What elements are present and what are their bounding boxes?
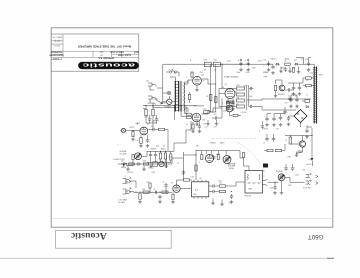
volume pot VR1 (135, 153, 142, 160)
svg-text:47K: 47K (303, 170, 306, 172)
wire reverb out (290, 181, 304, 183)
ch2 drop cap Ca (212, 155, 215, 160)
wire T1 primary top (170, 77, 175, 81)
svg-text:Acoustic: Acoustic (70, 230, 107, 241)
interstage hwire (180, 157, 184, 159)
ch2 out wire (180, 188, 191, 190)
wire tank to pot (268, 181, 279, 183)
tube V4 output 6L6 (193, 76, 202, 85)
pilot lamp DS1 (167, 91, 171, 95)
svg-text:SLO-BLO: SLO-BLO (152, 99, 159, 101)
V5 cathode resistor (192, 124, 194, 129)
svg-text:+20V: +20V (305, 126, 309, 128)
bias grounds row (279, 70, 283, 73)
svg-text:DIN: DIN (262, 171, 265, 173)
svg-text:47K: 47K (220, 183, 223, 185)
wire rail to filters (220, 63, 269, 65)
transformer T1 secondary (183, 83, 186, 111)
cathode ground V4 (196, 85, 198, 88)
grid feed wire between tubes (184, 82, 186, 114)
bridge cap C61 (287, 116, 290, 121)
grid resistor V5 (188, 94, 190, 100)
footswitch arrows (316, 175, 319, 185)
mixer cap C31 (122, 162, 127, 165)
filter cap C53 (267, 61, 270, 66)
svg-text:100K: 100K (243, 85, 247, 87)
svg-text:G60T-01: G60T-01 (54, 44, 60, 46)
AC plug prong lower (148, 96, 157, 105)
svg-text:1.5K: 1.5K (136, 140, 139, 142)
svg-text:+16.3V: +16.3V (306, 164, 313, 166)
reverb pot VR8 (278, 174, 285, 181)
ground stub V2 area two (215, 122, 219, 125)
border frame of schematic sheet (51, 28, 333, 227)
OT component small box (305, 100, 310, 103)
svg-text:acoustic: acoustic (81, 61, 135, 67)
tone stack bottom bus (147, 162, 171, 164)
input jack J1 (121, 128, 125, 132)
grid network box lower (187, 116, 192, 118)
tone branch extra (170, 154, 172, 160)
ch2 drop resistor Ra (201, 155, 203, 160)
svg-text:6.3V: 6.3V (285, 103, 288, 105)
ch2 drop resistor Rb (217, 155, 219, 160)
interstage vertical wire A (183, 152, 185, 180)
svg-text:TREBLE: TREBLE (150, 149, 156, 151)
OT tap resistor R46 (306, 84, 312, 86)
tone cap C14 (154, 153, 157, 158)
rail drop wire (173, 106, 175, 121)
svg-text:NORMAL: NORMAL (120, 150, 127, 153)
wire ladder bus second (248, 85, 250, 107)
transistor Q1 bias regulator (279, 85, 285, 91)
svg-text:.02: .02 (288, 96, 290, 98)
resistor R56 at Q1 (274, 85, 276, 91)
wire fuse leads (166, 71, 169, 73)
diode D1 (275, 63, 279, 65)
rail junction wire (194, 105, 204, 107)
mid right filter caps C64 C65 (265, 117, 268, 122)
V6 cathode (172, 195, 174, 200)
ground Q2 (295, 154, 299, 157)
screen resistor R41 (210, 64, 212, 112)
V6 plate wire (177, 180, 184, 185)
wire ladder bus (246, 85, 248, 110)
reverb cap C81 (211, 184, 216, 187)
svg-text:68K: 68K (143, 189, 146, 191)
wire T1 secondary taps (185, 80, 189, 84)
svg-text:500K: 500K (169, 157, 173, 159)
wire B+ rail (197, 63, 241, 65)
top right small caps row (288, 97, 291, 102)
tone resistor R17 (164, 153, 166, 159)
svg-text:6L6: 6L6 (204, 124, 207, 126)
wire screens top (208, 83, 216, 85)
cap C56 at Q1 (287, 88, 292, 91)
svg-text:APPROVED R.M.: APPROVED R.M. (98, 57, 114, 60)
svg-text:220K: 220K (249, 96, 253, 98)
supply dropper R11 (145, 109, 147, 116)
svg-text:D51: D51 (264, 60, 267, 62)
svg-text:V1: V1 (147, 124, 149, 126)
mixer cap C32 (136, 162, 141, 165)
wire preamp rail top (143, 105, 197, 107)
wire V4 plate (201, 79, 208, 84)
low voltage rail wire (285, 134, 312, 136)
mixer gain box (153, 162, 158, 166)
svg-text:SCALE NONE: SCALE NONE (117, 54, 131, 57)
svg-text:.1: .1 (163, 182, 164, 184)
wire V3B leads (230, 112, 233, 116)
svg-text:.0022: .0022 (295, 175, 299, 177)
shunt cap C72 (158, 195, 161, 200)
DC rail down arrow (311, 128, 313, 158)
wire ladder to OT (247, 99, 255, 101)
plate resistor ladder R32 (237, 93, 245, 96)
cap C83 (273, 185, 276, 190)
resistor R72 (162, 191, 168, 193)
plate resistor ladder R31 (237, 87, 245, 90)
svg-text:1000uF: 1000uF (263, 129, 268, 131)
switch arrow mark (156, 100, 163, 105)
svg-text:DATE JY-10-80: DATE JY-10-80 (110, 51, 123, 54)
wire rail right segment (269, 63, 274, 65)
bias extra cap (284, 67, 287, 72)
shunt resistor R73 (139, 194, 141, 200)
wire jack to grid (127, 130, 139, 132)
V1 cathode cap C12 (146, 138, 149, 143)
svg-text:LOW VOL: LOW VOL (127, 172, 134, 174)
svg-text:UNLESS NOTED: UNLESS NOTED (49, 54, 64, 56)
svg-text:+435V: +435V (258, 61, 262, 63)
second channel bus (168, 158, 180, 164)
wire chain to tank top (244, 161, 250, 171)
coupling caps to grids (249, 87, 254, 90)
wire V5 plate (201, 110, 208, 114)
reverb resistor R82 (220, 190, 226, 192)
svg-text:1N4003: 1N4003 (271, 58, 276, 60)
V5 cathode cap (198, 124, 201, 129)
svg-text:DWG NO: DWG NO (53, 39, 60, 41)
pencil dash row (212, 137, 258, 139)
svg-text:.022: .022 (151, 126, 154, 128)
wire grid feed (181, 115, 187, 117)
diode D2 (294, 63, 298, 65)
wire bridge AC in (289, 115, 295, 117)
OT top lead (309, 64, 315, 66)
svg-text:4.7K/2W: 4.7K/2W (241, 112, 247, 114)
tone stack grounds (149, 165, 153, 168)
svg-text:82K: 82K (237, 97, 240, 99)
cathode ground V5 (196, 120, 198, 123)
pot wiper wire (285, 177, 290, 182)
svg-text:TOLERANCE: TOLERANCE (50, 51, 62, 54)
wire mains top rail (163, 64, 197, 103)
svg-text:20uF: 20uF (246, 72, 250, 74)
tone stack bus (147, 150, 171, 152)
pot VR3 second channel (223, 156, 231, 164)
bridge rectifier BR1 (294, 110, 307, 123)
svg-text:.01: .01 (263, 143, 265, 145)
mixer ground one (126, 168, 130, 171)
wire lamp (163, 92, 167, 94)
wire V3 inputs (219, 89, 237, 94)
reverb tank box (245, 171, 263, 194)
svg-text:220K: 220K (203, 109, 207, 111)
svg-text:100: 100 (301, 58, 304, 60)
wire R21 rail (210, 108, 223, 112)
cap rail arrows (240, 59, 249, 61)
plate resistor ladder R33 (237, 99, 245, 102)
wire switch to transformer (163, 101, 167, 103)
ch2 stage rail (196, 150, 240, 152)
svg-text:.02: .02 (153, 189, 155, 191)
junction dot rail C51 (240, 64, 241, 65)
wire lower jack (126, 160, 133, 166)
filter cap C51 (239, 61, 242, 66)
svg-text:250K: 250K (270, 188, 274, 190)
svg-text:SHEET 1 OF 1: SHEET 1 OF 1 (52, 35, 63, 37)
svg-text:TREBLE: TREBLE (210, 143, 216, 145)
wire plate node join (146, 122, 157, 124)
svg-text:8RD2C1B: 8RD2C1B (245, 196, 252, 198)
power transformer T1 primary (175, 82, 178, 111)
resistor R55 (285, 63, 291, 65)
tube V1 preamp (140, 127, 148, 135)
svg-text:1N4003: 1N4003 (284, 58, 289, 60)
phase inverter second half V3B (226, 105, 233, 112)
aux resistor R18 (132, 155, 134, 160)
plate resistor ladder R34 (237, 105, 245, 108)
svg-text:.0047: .0047 (218, 181, 222, 183)
tube V7 second channel (206, 155, 214, 163)
svg-text:.02: .02 (163, 146, 165, 148)
wire Q1 network (276, 80, 283, 85)
reverb driver IC U1 (192, 182, 209, 197)
svg-text:220K: 220K (152, 121, 156, 123)
svg-text:1B+: 1B+ (148, 103, 151, 105)
edge cap right (261, 124, 264, 129)
svg-text:2W: 2W (100, 54, 103, 56)
svg-text:3 4: 3 4 (186, 124, 188, 126)
phase inverter tube V3 (225, 89, 235, 99)
IC area ground one (211, 202, 215, 205)
wire to tank (229, 182, 245, 186)
svg-text:50uF: 50uF (310, 73, 314, 75)
mixer vertical drop (166, 153, 168, 168)
tank output jacks (263, 179, 268, 186)
svg-text:1.5K: 1.5K (202, 119, 205, 121)
bias small res vertical (292, 68, 294, 73)
wire power bottom run (153, 103, 176, 108)
OT tap resistor R45 (306, 77, 312, 79)
reverb resistor R81 (220, 185, 226, 187)
svg-text:+410V: +410V (227, 60, 231, 62)
svg-text:HI GAIN: HI GAIN (119, 201, 126, 204)
svg-text:56K: 56K (235, 91, 238, 93)
dashed routing curve (236, 142, 261, 165)
tone branch stubs (151, 151, 166, 162)
cap C71 (154, 191, 159, 194)
svg-text:REVERB: REVERB (276, 171, 283, 173)
wire caps to bridge (281, 113, 286, 116)
acoustic logo pill (78, 62, 138, 69)
filter cap C52 (247, 61, 250, 66)
caps above reverb pot (284, 166, 287, 171)
mixer ground two (142, 168, 146, 171)
DC feed arrow small (312, 161, 314, 166)
svg-text:Model: G6T THE TUBE STAGE AMP: Model: G6T THE TUBE STAGE AMPLIFIER (78, 44, 131, 48)
svg-text:22K: 22K (147, 182, 150, 184)
wire screens bottom (208, 110, 216, 112)
bias caps near curve (265, 137, 268, 142)
svg-text:.0005: .0005 (156, 146, 160, 148)
screen node caps (289, 98, 292, 103)
wire ch2 bus (129, 191, 172, 194)
power switch S1 (167, 99, 172, 104)
svg-text:.022: .022 (214, 114, 217, 116)
grid resistor V4 (191, 72, 193, 77)
tone resistor R16 (159, 153, 161, 159)
svg-text:.1: .1 (259, 131, 260, 133)
wire to output transformer (255, 99, 311, 100)
wire ch2 jack link (129, 181, 136, 188)
svg-text:VOLUME: VOLUME (228, 166, 236, 168)
pot ground (281, 181, 283, 191)
faint fold line across sheet (52, 218, 333, 220)
small resistor at V3B (233, 114, 238, 116)
svg-text:G60T: G60T (308, 233, 324, 240)
wire Q2 network (302, 135, 304, 141)
tube V5 output 6L6 (192, 113, 201, 122)
transistor Q2 regulator (299, 141, 305, 147)
wire pot to bus (141, 151, 147, 156)
tube V6 channel2 (173, 185, 180, 192)
svg-text:16: 16 (306, 80, 308, 82)
wire bias to cap (299, 61, 304, 64)
svg-text:V6: V6 (171, 183, 173, 185)
svg-text:1K: 1K (285, 140, 287, 142)
svg-text:INPUT: INPUT (130, 127, 135, 129)
coupling cap C21 (214, 116, 219, 119)
top right corner wires (296, 58, 304, 62)
plate resistor R14 (159, 128, 165, 130)
vertical feed wires (180, 106, 182, 117)
resistor R52 supply dropper (213, 62, 220, 66)
bias cap C54 (271, 65, 274, 70)
svg-text:100K: 100K (191, 177, 195, 179)
plate resistor R74 (184, 179, 190, 181)
svg-text:C55: C55 (305, 59, 308, 61)
OT diode (306, 106, 308, 108)
ground stub V2 area one (206, 122, 210, 125)
svg-text:450V: 450V (252, 68, 256, 70)
svg-text:4.7K: 4.7K (214, 127, 217, 129)
wire mid right (264, 150, 267, 152)
wire jacks link (303, 181, 306, 183)
cap C63 (305, 129, 308, 134)
lower jack J4 (121, 163, 126, 168)
svg-text:25V: 25V (276, 129, 279, 131)
supply dropper R12 (152, 109, 154, 116)
resistor R61 (289, 137, 291, 144)
title block outline (51, 34, 139, 71)
rail drop to PI (221, 64, 223, 88)
svg-text:FOOT SW: FOOT SW (303, 188, 311, 190)
fuse F1 (169, 71, 171, 73)
mixer resistor R36 (143, 163, 149, 165)
interstage resistor (195, 165, 197, 171)
resistor R51 supply dropper (204, 62, 211, 66)
wire bias node (304, 63, 309, 65)
interstage vertical wire B (195, 150, 197, 180)
mixer resistor R35 (129, 163, 135, 165)
mid right resistor row (267, 149, 273, 151)
svg-text:.02: .02 (295, 96, 297, 98)
svg-text:1.5K: 1.5K (205, 127, 208, 129)
svg-text:.02: .02 (177, 163, 179, 165)
svg-text:100K: 100K (288, 185, 292, 187)
V1 cathode resistor R15 (140, 138, 142, 144)
grid stopper R71 (143, 191, 149, 193)
mixer volume pot VR2 (159, 161, 164, 166)
svg-text:100K: 100K (145, 117, 149, 119)
interstage cap (182, 170, 185, 175)
wire upper caps rail (288, 82, 303, 84)
title block inner lines (51, 34, 139, 60)
grid network box upper (187, 113, 192, 115)
plate bypass cap Ca2 (155, 117, 158, 122)
svg-text:LOW GAIN: LOW GAIN (119, 198, 128, 201)
wire tone to V2 grid (171, 121, 191, 151)
svg-text:T2: T2 (306, 95, 308, 97)
svg-text:B+: B+ (190, 60, 192, 62)
transformer T1 core (180, 81, 182, 112)
wire R14 to tone bus (167, 130, 169, 152)
footswitch jack J9 (306, 180, 311, 185)
wire caps node (291, 95, 297, 98)
resistor R21 (204, 111, 210, 113)
channel2 jack J5 (123, 179, 131, 184)
coupling cap C11 (151, 128, 156, 131)
svg-text:4558: 4558 (193, 194, 197, 196)
parts above ch2 wire (149, 183, 151, 188)
svg-text:470K: 470K (223, 111, 227, 113)
ch2 out resistor (242, 153, 244, 158)
footer box with Acoustic name (56, 230, 172, 248)
wire plug to switch (157, 87, 163, 89)
svg-text:6L6: 6L6 (202, 75, 205, 77)
channel2 jack J6 (123, 189, 131, 194)
svg-text:TUBE SOUND: TUBE SOUND (224, 77, 239, 79)
ch2 rail drops (202, 151, 226, 155)
upper caps near OT (292, 86, 295, 91)
plate bypass cap Ca1 (148, 117, 151, 122)
footswitch jack J8 (306, 174, 311, 179)
screen resistor R42 (215, 64, 217, 112)
AC plug prong upper (148, 83, 157, 90)
svg-text:470K: 470K (143, 161, 147, 163)
bias cap C55 (307, 61, 310, 66)
svg-text:.047: .047 (121, 161, 124, 163)
svg-text:7027: 7027 (200, 72, 204, 74)
junction dots tone (160, 151, 161, 152)
V3 cathode components (227, 102, 229, 108)
svg-text:4558: 4558 (152, 172, 156, 174)
bridge cap C62 (283, 110, 286, 115)
ch2 out drop (240, 151, 243, 158)
svg-text:.1: .1 (222, 103, 223, 105)
